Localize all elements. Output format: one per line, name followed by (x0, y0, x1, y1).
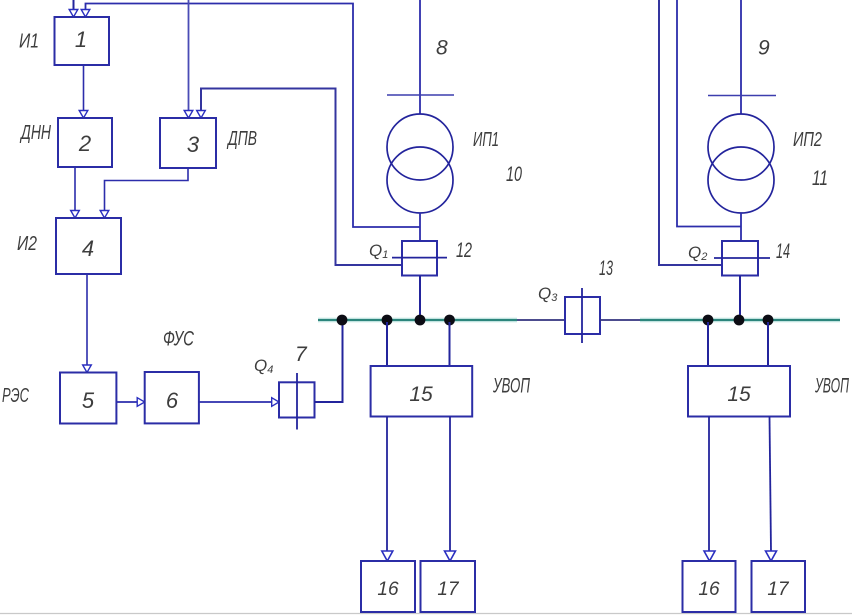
svg-text:И1: И1 (19, 31, 39, 53)
junction dot bus-15L input 1 (382, 315, 393, 326)
wire top horizontal feedback to block 1 input 2 (86, 4, 421, 228)
svg-text:2: 2 (78, 131, 91, 156)
svg-text:17: 17 (437, 579, 460, 600)
svg-text:ДПВ: ДПВ (227, 128, 257, 150)
svg-text:8: 8 (436, 37, 448, 60)
svg-text:ДНН: ДНН (20, 122, 52, 144)
transformer ИП1 lower winding (387, 147, 453, 213)
svg-text:12: 12 (456, 239, 472, 262)
wire bus to block 15L input 2 (449, 322, 451, 366)
block 4 (56, 218, 121, 274)
svg-text:3: 3 (187, 132, 200, 157)
wire block 15R to block 16R (708, 417, 710, 552)
svg-text:13: 13 (599, 257, 613, 280)
svg-text:1: 1 (75, 27, 87, 52)
breaker Q3 box (565, 297, 600, 334)
block 15 right (688, 366, 790, 417)
svg-text:15: 15 (727, 383, 751, 406)
breaker Q3 stem (581, 288, 583, 343)
svg-text:16: 16 (698, 579, 720, 600)
svg-text:9: 9 (758, 37, 770, 60)
arrowhead into block 16L (382, 551, 393, 561)
arrowhead into block 17R (766, 551, 777, 561)
arrowhead into block 3 input 1 (184, 111, 193, 119)
svg-text:УВОП: УВОП (814, 375, 849, 398)
transformer ИП2 upper winding (708, 114, 774, 180)
block 3 (160, 118, 216, 168)
svg-text:15: 15 (409, 383, 433, 406)
svg-text:ИП1: ИП1 (473, 129, 499, 151)
svg-text:14: 14 (776, 240, 790, 263)
wire top into block 1 input 1 (73, 0, 75, 10)
wire tap to breaker Q2 (right) (659, 0, 722, 265)
wire block 15L to block 17L (449, 417, 451, 552)
arrowhead into block 4 input 2 (100, 211, 109, 219)
svg-text:17: 17 (767, 579, 790, 600)
transformer ИП1 upper winding (387, 114, 453, 180)
block 6 (145, 372, 199, 423)
wire transformer ИП1 to breaker Q1 (419, 213, 421, 241)
wire block 4 to block 5 (86, 274, 88, 365)
arrowhead into block 16R (704, 551, 715, 561)
junction dot bus-Q4 (337, 315, 348, 326)
breaker Q2 crossbar (714, 257, 770, 259)
transformer ИП2 lower winding (708, 147, 774, 213)
svg-text:7: 7 (295, 343, 308, 366)
svg-text:10: 10 (506, 163, 522, 186)
block 16 right (683, 561, 736, 612)
wire block 1 to block 2 (83, 65, 85, 111)
block 1 (55, 17, 110, 65)
breaker Q4 stem (296, 373, 298, 430)
wire tap to block 1 net (right) (677, 0, 741, 227)
block 2 (58, 118, 112, 167)
wire grid feeder 9 (740, 0, 742, 114)
junction dot bus-Q1 (415, 315, 426, 326)
arrowhead into block 3 input 2 (197, 111, 206, 119)
wire block 3 to block 4 (105, 168, 189, 211)
svg-text:4: 4 (82, 236, 94, 261)
breaker Q1 box (402, 241, 437, 276)
wire from breaker Q1 to block 3 input 2 (201, 89, 402, 266)
svg-text:5: 5 (82, 388, 95, 413)
breaker Q4 box (279, 382, 315, 417)
arrowhead into block 2 (79, 111, 88, 119)
arrowhead into block 17L (445, 551, 456, 561)
block 16 left (361, 561, 415, 612)
bus section 1 (left, teal) (318, 319, 517, 321)
svg-text:РЭС: РЭС (2, 385, 29, 407)
block 17 left (421, 561, 476, 612)
bus link to breaker Q3 right (600, 319, 640, 321)
wire block 6 to breaker Q4 (199, 401, 272, 403)
arrowhead into block 6 (137, 398, 145, 407)
wire breaker Q1 to bus (419, 276, 421, 321)
arrowhead into block 1 input 1 (69, 10, 78, 18)
wire transformer ИП2 to breaker Q2 (740, 213, 742, 241)
wire block 2 to block 4 (74, 167, 76, 211)
breaker Q2 box (722, 241, 758, 276)
breaker Q1 crossbar (392, 257, 447, 259)
arrowhead into block 4 input 1 (71, 211, 80, 219)
wire breaker Q4 to bus junction (315, 322, 343, 402)
arrowhead into block 5 (83, 365, 92, 373)
svg-text:И2: И2 (17, 233, 37, 255)
wire bus to block 15L input 1 (386, 322, 388, 366)
svg-text:11: 11 (812, 167, 828, 190)
bus section 2 halo (640, 318, 840, 323)
block 15 left (371, 366, 473, 417)
wire grid feeder 8 (419, 0, 421, 114)
junction dot bus-15R input 2 (763, 315, 774, 326)
bus section 1 halo (318, 318, 517, 323)
bottom border line (0, 613, 852, 615)
terminal bar of feeder 9 (708, 95, 776, 97)
junction dot bus-Q2 (734, 315, 745, 326)
junction dot bus-15R input 1 (703, 315, 714, 326)
arrowhead into block 1 input 2 (81, 10, 90, 18)
block 5 (60, 373, 116, 424)
svg-text:16: 16 (377, 579, 399, 600)
junction dot bus-15L input 2 (444, 315, 455, 326)
svg-text:ФУС: ФУС (163, 328, 195, 351)
block 17 right (752, 561, 806, 612)
bus link to breaker Q3 left (517, 319, 565, 321)
wire bus to block 15R input 1 (707, 322, 709, 366)
wire breaker Q2 to bus (739, 276, 741, 321)
wire block 5 to block 6 (117, 401, 138, 403)
terminal bar of feeder 8 (387, 94, 454, 96)
wire bus to block 15R input 2 (767, 322, 769, 366)
wire block 15R to block 17R (770, 417, 772, 552)
svg-text:6: 6 (166, 388, 179, 413)
wire block 15L to block 16L (386, 417, 388, 552)
bus section 2 (right, teal) (640, 319, 840, 321)
svg-text:ИП2: ИП2 (793, 129, 822, 151)
arrowhead into breaker Q4 (272, 398, 279, 407)
wire top into block 3 input 1 (188, 0, 190, 111)
svg-text:УВОП: УВОП (492, 375, 530, 398)
